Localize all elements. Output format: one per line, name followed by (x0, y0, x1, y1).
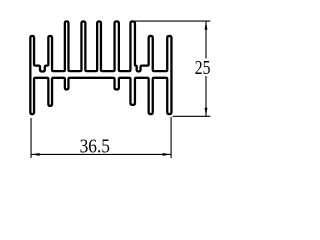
extension line bottom (173, 115, 211, 117)
extension line top (135, 20, 210, 22)
dimension: 25 (right side) (135, 21, 210, 116)
heatsink profile outline (30, 21, 171, 114)
horizontal dimension line (31, 153, 171, 155)
vertical dimension line (broken for text) (205, 21, 207, 58)
extension line left (30, 118, 32, 158)
arrow left (31, 153, 40, 156)
extension line right (170, 117, 172, 158)
arrow down (205, 108, 208, 117)
arrow right (163, 153, 172, 156)
svg-text:25: 25 (195, 58, 211, 79)
dimension: 36.5 (bottom) (31, 117, 171, 158)
svg-text:36.5: 36.5 (80, 136, 110, 158)
arrow up (205, 21, 208, 30)
